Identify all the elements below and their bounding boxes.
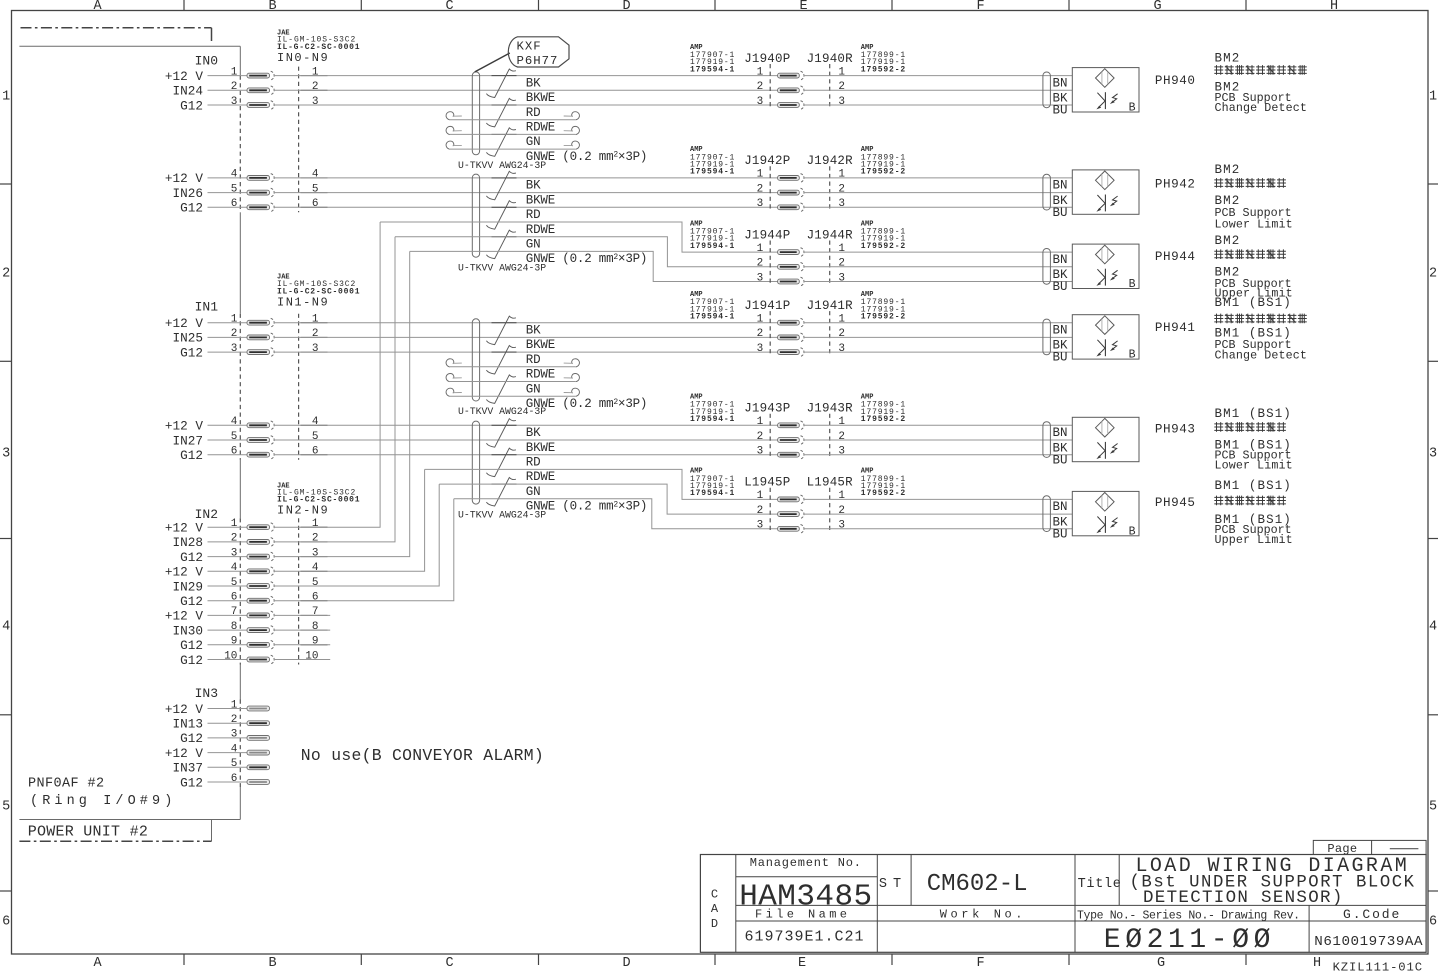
svg-text:ST: ST xyxy=(879,877,907,892)
svg-text:BU: BU xyxy=(1053,280,1068,294)
sensor name PH942 xyxy=(1155,177,1196,191)
svg-text:3: 3 xyxy=(312,547,319,559)
cable W4 (IN1 4-6 / IN2 4-6) twisted-pair mark 2 xyxy=(486,448,515,477)
svg-text:(Ring I/O#9): (Ring I/O#9) xyxy=(30,794,176,809)
L1945 pin 2 xyxy=(757,505,845,519)
balloon KXF P6H77 with leader to cable W1 xyxy=(475,37,569,72)
svg-text:G12: G12 xyxy=(180,638,203,653)
spare wire coil xyxy=(446,373,579,381)
svg-text:3: 3 xyxy=(2,447,10,462)
power unit PNF0AF #2 dash-dot boundary (top) xyxy=(21,28,212,41)
svg-text:4: 4 xyxy=(231,743,238,755)
svg-text:J1941R: J1941R xyxy=(807,299,854,313)
svg-text:G12: G12 xyxy=(180,448,203,463)
IN1-N9 pin 2 (IN25) xyxy=(173,328,328,346)
svg-text:5: 5 xyxy=(312,577,319,589)
J1940 pin 3 xyxy=(757,96,845,110)
title LOAD WIRING DIAGRAM xyxy=(1136,855,1410,878)
connector J1944 dashed body edges xyxy=(770,241,830,286)
svg-text:+12 V: +12 V xyxy=(165,565,203,580)
svg-text:2: 2 xyxy=(757,81,764,93)
sensor lead label BK xyxy=(1053,268,1069,282)
connector J1943R part numbers (AMP) xyxy=(861,394,906,425)
svg-text:PH941: PH941 xyxy=(1155,321,1196,335)
svg-text:KZIL111-01C: KZIL111-01C xyxy=(1333,961,1423,974)
svg-text:H: H xyxy=(1330,0,1338,14)
IN3 pin 5 (IN37) xyxy=(173,758,270,776)
photo sensor PH945 body xyxy=(1072,491,1139,538)
svg-text:1: 1 xyxy=(838,66,845,78)
svg-text:IN37: IN37 xyxy=(173,761,203,776)
svg-text:L1945P: L1945P xyxy=(744,476,790,490)
svg-text:2: 2 xyxy=(757,183,764,195)
svg-text:D: D xyxy=(711,917,718,931)
svg-text:6: 6 xyxy=(231,592,238,604)
svg-text:E: E xyxy=(799,0,807,14)
svg-text:KXF: KXF xyxy=(517,40,542,54)
title block outline xyxy=(700,855,1426,953)
wire IN2-N9 pin 4 jog up to cable xyxy=(274,469,425,571)
cable W3 (IN1 1-3) twisted-pair mark 2 xyxy=(486,346,515,375)
svg-text:2: 2 xyxy=(231,714,238,726)
svg-text:2: 2 xyxy=(231,533,238,545)
connector J1943R label xyxy=(807,402,854,416)
svg-text:RDWE: RDWE xyxy=(526,121,555,135)
photo sensor PH943 body xyxy=(1072,417,1139,461)
svg-text:BU: BU xyxy=(1053,453,1068,467)
note No use (B CONVEYOR ALARM) xyxy=(301,746,544,765)
svg-text:G: G xyxy=(1153,0,1161,14)
cable W3 (IN1 1-3) twisted-pair mark 1 xyxy=(486,316,515,345)
sensor lead label BN xyxy=(1053,426,1068,440)
connector J1941R label xyxy=(807,299,854,313)
svg-text:+12 V: +12 V xyxy=(165,746,203,761)
wire J1940R pin 3 to sensor PH940 xyxy=(804,104,1073,106)
svg-text:3: 3 xyxy=(757,96,764,108)
svg-text:7: 7 xyxy=(231,606,238,618)
svg-text:BKWE: BKWE xyxy=(526,441,555,455)
J1943 pin 2 xyxy=(757,431,845,445)
connector J1943P label xyxy=(744,402,790,416)
svg-text:9: 9 xyxy=(312,636,319,648)
svg-text:2: 2 xyxy=(757,328,764,340)
wire cable W4 row5 to L1945 pin2 xyxy=(439,484,777,514)
IN2-N9 pin 10 (G12) xyxy=(180,650,327,668)
svg-text:2: 2 xyxy=(838,258,845,270)
svg-text:CM602-L: CM602-L xyxy=(927,871,1028,898)
svg-text:1: 1 xyxy=(757,169,764,181)
J1944 pin 2 xyxy=(757,258,845,272)
svg-text:Change Detect: Change Detect xyxy=(1215,101,1307,115)
wire cable W4 row4 to L1945 pin1 xyxy=(425,469,778,499)
svg-text:U-TKVV AWG24-3P: U-TKVV AWG24-3P xyxy=(458,406,546,417)
wire IN2-N9 pin 10 stub xyxy=(274,659,330,661)
svg-text:J1944R: J1944R xyxy=(807,228,854,242)
svg-text:2: 2 xyxy=(312,81,319,93)
svg-text:5: 5 xyxy=(1429,800,1437,815)
svg-text:G12: G12 xyxy=(180,98,203,113)
svg-text:PH945: PH945 xyxy=(1155,496,1196,510)
power unit box outline xyxy=(19,46,240,819)
svg-text:IN1-N9: IN1-N9 xyxy=(277,295,329,309)
wire IN2-N9 pin 6 jog up to cable xyxy=(274,499,454,601)
svg-text:3: 3 xyxy=(231,343,238,355)
svg-text:RD: RD xyxy=(526,208,541,222)
svg-text:RD: RD xyxy=(526,106,541,120)
IN1-N9 pin 4 (+12 V) xyxy=(165,416,328,434)
svg-text:J1940R: J1940R xyxy=(807,52,854,66)
sensor lead label BU xyxy=(1053,104,1068,118)
connector IN0-N9 dashed body edges xyxy=(298,67,300,213)
svg-text:BM2: BM2 xyxy=(1215,234,1241,248)
svg-text:J1943R: J1943R xyxy=(807,402,854,416)
cable W2 (IN0 4-6 / IN2 1-3) sheath oval xyxy=(472,174,479,257)
wire IN1-N9 pin 2 to J-connector xyxy=(274,336,778,338)
description PH941 line Change Detect xyxy=(1215,349,1307,363)
IN2-N9 pin 6 (G12) xyxy=(180,592,327,610)
svg-text:179594-1: 179594-1 xyxy=(690,415,735,424)
wire cable W2 row4 to J1944 pin1 xyxy=(380,222,777,252)
svg-text:G12: G12 xyxy=(180,550,203,565)
svg-text:BU: BU xyxy=(1053,104,1068,118)
wire J1944R pin 2 to sensor PH944 xyxy=(804,266,1073,268)
description PH940 Japanese line xyxy=(1214,65,1307,75)
svg-text:3: 3 xyxy=(231,729,238,741)
sensor lead label BN xyxy=(1053,179,1068,193)
sensor lead label BK xyxy=(1053,515,1069,529)
svg-text:H: H xyxy=(1313,956,1321,971)
J1943 pin 3 xyxy=(757,446,845,460)
connector J1940P part numbers (AMP) xyxy=(690,44,735,75)
svg-text:PNF0AF #2: PNF0AF #2 xyxy=(28,777,105,792)
title block G.Code label xyxy=(1343,907,1401,922)
description PH942 line Lower Limit xyxy=(1215,218,1293,232)
svg-text:IN3: IN3 xyxy=(195,686,218,701)
description PH942 Japanese line xyxy=(1214,178,1286,188)
svg-text:1: 1 xyxy=(231,66,238,78)
svg-text:File Name: File Name xyxy=(755,908,850,922)
svg-text:U-TKVV AWG24-3P: U-TKVV AWG24-3P xyxy=(458,510,546,521)
description PH943 Japanese line xyxy=(1214,422,1286,432)
IN2-N9 pin 5 (IN29) xyxy=(173,577,328,595)
cable W4 (IN1 4-6 / IN2 4-6) sheath oval xyxy=(472,421,479,504)
J1943 pin 1 xyxy=(757,416,846,430)
description PH943 line BM xyxy=(1215,407,1292,421)
svg-text:PH942: PH942 xyxy=(1155,177,1196,191)
svg-text:+12 V: +12 V xyxy=(165,702,203,717)
connector L1945 dashed body edges xyxy=(770,488,830,533)
svg-text:1: 1 xyxy=(838,314,845,326)
sensor name PH940 xyxy=(1155,74,1196,88)
cable W2 (IN0 4-6 / IN2 1-3) twisted-pair mark 3 xyxy=(486,230,515,259)
svg-text:3: 3 xyxy=(312,96,319,108)
node IN3 xyxy=(195,686,218,701)
svg-text:IN24: IN24 xyxy=(173,84,203,99)
connector IN1-N9 (JAE IL-GM-10S-S3C2) xyxy=(277,274,360,310)
svg-text:A: A xyxy=(93,956,102,971)
connector L1945P label xyxy=(744,476,790,490)
IN2-N9 pin 3 (G12) xyxy=(180,547,327,565)
wire IN0-N9 pin 2 to J-connector xyxy=(274,89,778,91)
wire J1941R pin 2 to sensor PH941 xyxy=(804,336,1073,338)
svg-text:4: 4 xyxy=(2,620,10,635)
svg-text:+12 V: +12 V xyxy=(165,316,203,331)
IN0-N9 pin 3 (G12) xyxy=(180,96,327,114)
description PH942 line BM xyxy=(1215,163,1241,177)
wire cable W2 row6 to J1944 pin3 xyxy=(410,251,778,281)
svg-text:1: 1 xyxy=(312,66,319,78)
svg-text:GN: GN xyxy=(526,135,541,149)
svg-text:DETECTION SENSOR): DETECTION SENSOR) xyxy=(1143,888,1344,908)
svg-text:A: A xyxy=(711,902,719,916)
svg-text:6: 6 xyxy=(1429,915,1437,930)
description PH945 line Upper Limit xyxy=(1215,533,1293,547)
svg-text:4: 4 xyxy=(312,169,319,181)
svg-text:3: 3 xyxy=(757,446,764,458)
connector J1942P label xyxy=(744,154,790,168)
value E0211-00 xyxy=(1104,925,1275,956)
J1940 pin 2 xyxy=(757,81,845,95)
description PH941 line BM xyxy=(1215,296,1292,310)
svg-text:B: B xyxy=(1129,349,1136,362)
description PH940 line BM (2) xyxy=(1215,81,1241,95)
svg-text:1: 1 xyxy=(757,243,764,255)
J1944 pin 1 xyxy=(757,243,846,257)
sensor lead label BN xyxy=(1053,324,1068,338)
svg-text:1: 1 xyxy=(312,314,319,326)
photo sensor PH940 body xyxy=(1072,68,1139,115)
svg-text:B: B xyxy=(1129,278,1136,291)
svg-text:RDWE: RDWE xyxy=(526,368,555,382)
svg-text:1: 1 xyxy=(231,314,238,326)
connector J1943P part numbers (AMP) xyxy=(690,394,735,425)
svg-text:1: 1 xyxy=(312,518,319,530)
svg-text:2: 2 xyxy=(312,328,319,340)
svg-text:Title: Title xyxy=(1078,877,1122,892)
node IN2 xyxy=(195,507,218,522)
IN3 pin 3 (G12) xyxy=(180,729,269,747)
svg-text:BU: BU xyxy=(1053,206,1068,220)
svg-text:+12 V: +12 V xyxy=(165,419,203,434)
wire J1943R pin 2 to sensor PH943 xyxy=(804,439,1073,441)
svg-text:4: 4 xyxy=(231,416,238,428)
J1942 pin 2 xyxy=(757,183,845,197)
svg-text:BN: BN xyxy=(1053,426,1068,440)
wire IN2-N9 pin 1 jog up to cable xyxy=(274,222,380,527)
connector L1945R part numbers (AMP) xyxy=(861,468,906,499)
cable W2 (IN0 4-6 / IN2 1-3) twisted-pair mark 2 xyxy=(486,201,515,230)
svg-text:6: 6 xyxy=(312,592,319,604)
cable W1 (IN0 1-3) twisted-pair mark 1 xyxy=(486,69,515,98)
J1941 pin 2 xyxy=(757,328,845,342)
svg-text:7: 7 xyxy=(312,606,319,618)
J1942 pin 1 xyxy=(757,169,846,183)
sensor lead label BK xyxy=(1053,92,1069,106)
svg-text:BM1 (BS1): BM1 (BS1) xyxy=(1215,479,1292,493)
label PNF0AF #2 (Ring I/O#9) xyxy=(28,777,176,810)
title block Management No. xyxy=(750,856,862,870)
wire IN1-N9 pin 1 to J-connector xyxy=(274,322,778,324)
svg-text:D: D xyxy=(622,956,630,971)
connector J1943 dashed body edges xyxy=(770,414,830,459)
IN0-N9 pin 5 (IN26) xyxy=(173,183,328,201)
svg-text:BU: BU xyxy=(1053,527,1068,541)
connector J1944R part numbers (AMP) xyxy=(861,220,906,251)
sensor PH940 cable sheath oval xyxy=(1043,72,1051,108)
wire J1943R pin 1 to sensor PH943 xyxy=(804,424,1073,426)
svg-text:+12 V: +12 V xyxy=(165,171,203,186)
svg-text:3: 3 xyxy=(838,343,845,355)
spare wire coil xyxy=(446,388,579,396)
svg-text:BN: BN xyxy=(1053,179,1068,193)
svg-text:5: 5 xyxy=(231,758,238,770)
svg-text:IN26: IN26 xyxy=(173,186,203,201)
svg-text:G: G xyxy=(1157,956,1165,971)
connector IN2-N9 dashed body edges xyxy=(298,518,300,664)
svg-text:3: 3 xyxy=(838,272,845,284)
IN1-N9 pin 6 (G12) xyxy=(180,446,327,464)
J1941 pin 3 xyxy=(757,343,845,357)
description PH940 line Change Detect xyxy=(1215,101,1307,115)
svg-text:4: 4 xyxy=(312,562,319,574)
photo sensor PH942 body xyxy=(1072,170,1139,214)
svg-text:BKWE: BKWE xyxy=(526,91,555,105)
svg-text:2: 2 xyxy=(231,328,238,340)
description PH942 line BM (2) xyxy=(1215,194,1241,208)
sensor name PH943 xyxy=(1155,423,1196,437)
svg-text:8: 8 xyxy=(312,621,319,633)
svg-text:1: 1 xyxy=(231,699,238,711)
svg-text:5: 5 xyxy=(312,431,319,443)
cable W3 (IN1 1-3) twisted-pair mark 3 xyxy=(486,375,515,404)
svg-text:G12: G12 xyxy=(180,345,203,360)
wire IN1-N9 pin 4 to J-connector xyxy=(274,424,778,426)
description PH943 line Lower Limit xyxy=(1215,459,1293,473)
sensor lead label BK xyxy=(1053,194,1069,208)
sensor name PH944 xyxy=(1155,250,1196,264)
title block Page box xyxy=(1313,840,1426,856)
svg-text:2: 2 xyxy=(838,431,845,443)
power unit dash-dot boundary (bottom) xyxy=(19,820,211,842)
svg-text:RD: RD xyxy=(526,456,541,470)
svg-text:G12: G12 xyxy=(180,775,203,790)
cable W4 (IN1 4-6 / IN2 4-6) twisted-pair mark 1 xyxy=(486,419,515,447)
spare wire coil xyxy=(446,141,579,149)
wire IN2-N9 pin 8 stub xyxy=(274,629,330,631)
node IN1 xyxy=(195,300,219,315)
svg-text:C: C xyxy=(445,0,453,14)
connector J1944P label xyxy=(744,228,790,242)
svg-text:1: 1 xyxy=(838,416,845,428)
svg-text:2: 2 xyxy=(757,431,764,443)
svg-text:6: 6 xyxy=(231,446,238,458)
svg-text:BM2: BM2 xyxy=(1215,163,1241,177)
svg-text:No use(B CONVEYOR ALARM): No use(B CONVEYOR ALARM) xyxy=(301,746,544,765)
svg-text:IN13: IN13 xyxy=(173,717,203,732)
svg-text:4: 4 xyxy=(231,562,238,574)
svg-text:GN: GN xyxy=(526,485,541,499)
IN3 pin 1 (+12 V) xyxy=(165,699,270,717)
svg-text:IN29: IN29 xyxy=(173,579,203,594)
svg-text:+12 V: +12 V xyxy=(165,609,203,624)
wire J1940R pin 1 to sensor PH940 xyxy=(804,75,1073,77)
svg-text:+12 V: +12 V xyxy=(165,521,203,536)
svg-text:BM1 (BS1): BM1 (BS1) xyxy=(1215,407,1292,421)
sensor lead label BN xyxy=(1053,500,1068,514)
title block Type No.- Series No.- Drawing Rev. label xyxy=(1077,910,1300,923)
svg-text:BM2: BM2 xyxy=(1215,52,1241,66)
connector J1941P label xyxy=(744,299,790,313)
sensor name PH941 xyxy=(1155,321,1196,335)
svg-text:179592-2: 179592-2 xyxy=(861,489,906,498)
wire J1940R pin 2 to sensor PH940 xyxy=(804,89,1073,91)
sensor lead label BU xyxy=(1053,280,1068,294)
svg-text:179594-1: 179594-1 xyxy=(690,168,735,177)
sensor PH943 cable sheath oval xyxy=(1043,422,1051,458)
svg-text:B: B xyxy=(268,0,276,14)
svg-text:Lower Limit: Lower Limit xyxy=(1215,459,1293,473)
L1945 pin 1 xyxy=(757,490,846,504)
svg-text:BK: BK xyxy=(526,426,541,440)
svg-text:3: 3 xyxy=(1429,447,1437,462)
svg-text:6: 6 xyxy=(231,773,238,785)
wire J1941R pin 3 to sensor PH941 xyxy=(804,351,1073,353)
IN3 pin 6 (G12) xyxy=(180,773,269,791)
svg-text:B: B xyxy=(268,956,276,971)
wire J1943R pin 3 to sensor PH943 xyxy=(804,454,1073,456)
wire J1941R pin 1 to sensor PH941 xyxy=(804,322,1073,324)
svg-text:3: 3 xyxy=(838,446,845,458)
J1940 pin 1 xyxy=(757,66,846,80)
svg-text:PH944: PH944 xyxy=(1155,250,1196,264)
svg-text:BKWE: BKWE xyxy=(526,338,555,352)
title block CAD label xyxy=(711,888,719,932)
svg-text:IN28: IN28 xyxy=(173,535,203,550)
svg-text:5: 5 xyxy=(231,431,238,443)
wire IN1-N9 pin 5 to J-connector xyxy=(274,439,778,441)
IN3 pin 4 (+12 V) xyxy=(165,743,270,761)
connector J1940R label xyxy=(807,52,854,66)
J1942 pin 3 xyxy=(757,198,845,212)
wire J1942R pin 2 to sensor PH942 xyxy=(804,192,1073,194)
description PH944 line BM (2) xyxy=(1215,266,1241,280)
svg-text:U-TKVV AWG24-3P: U-TKVV AWG24-3P xyxy=(458,160,546,171)
IN2-N9 pin 4 (+12 V) xyxy=(165,562,328,580)
photo sensor PH944 body xyxy=(1072,244,1139,291)
svg-text:2: 2 xyxy=(838,328,845,340)
svg-text:1: 1 xyxy=(757,314,764,326)
svg-text:5: 5 xyxy=(2,800,10,815)
svg-text:3: 3 xyxy=(757,343,764,355)
svg-text:BK: BK xyxy=(526,324,541,338)
svg-text:IN0: IN0 xyxy=(195,53,218,68)
svg-text:J1942P: J1942P xyxy=(744,154,790,168)
svg-text:F: F xyxy=(976,956,984,971)
J1944 pin 3 xyxy=(757,272,845,286)
wire IN2-N9 pin 7 stub xyxy=(274,614,330,616)
svg-text:IN0-N9: IN0-N9 xyxy=(277,51,329,65)
description PH945 line BM (2) xyxy=(1215,513,1292,527)
svg-text:G12: G12 xyxy=(180,731,203,746)
svg-text:A: A xyxy=(93,0,102,14)
svg-text:PH940: PH940 xyxy=(1155,74,1196,88)
IN0-N9 pin 4 (+12 V) xyxy=(165,169,328,187)
connector IN0-N9 (JAE IL-GM-10S-S3C2) xyxy=(277,29,360,65)
svg-text:N610019739AA: N610019739AA xyxy=(1314,934,1423,950)
description PH945 line BM xyxy=(1215,479,1292,493)
cable W1 (IN0 1-3) sheath oval xyxy=(472,72,479,155)
description PH941 Japanese line xyxy=(1214,314,1307,324)
